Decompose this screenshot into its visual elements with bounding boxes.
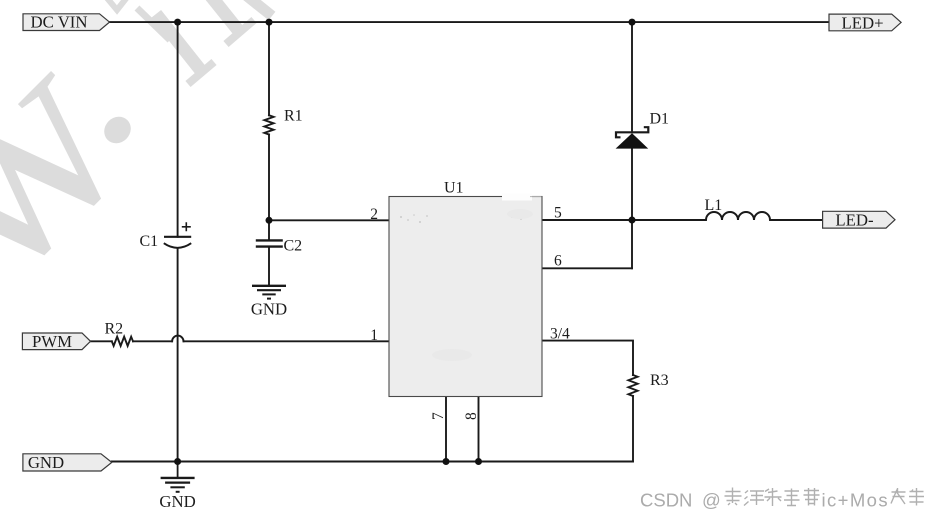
resistor R1 bbox=[264, 108, 302, 135]
wire D1 vertical lower bbox=[631, 149, 633, 269]
node R1-C2-pin2 bbox=[266, 217, 273, 224]
wire PWM to R2 bbox=[91, 340, 112, 342]
wire pin 5 to node bbox=[542, 219, 706, 221]
svg-text:LED-: LED- bbox=[835, 211, 873, 230]
ground symbol left bbox=[159, 462, 195, 512]
svg-text:DC VIN: DC VIN bbox=[30, 13, 87, 32]
svg-text:3/4: 3/4 bbox=[550, 326, 570, 343]
svg-text:D1: D1 bbox=[650, 111, 670, 128]
wire pin 8 bbox=[478, 397, 480, 462]
watermark bbox=[0, 0, 272, 335]
CSDN watermark text bbox=[640, 490, 889, 511]
svg-text:ic+Mos: ic+Mos bbox=[822, 490, 890, 511]
node GND-pin8 bbox=[475, 458, 482, 465]
wire pin 3/4 to R3 bbox=[542, 341, 633, 375]
wire pin 2 bbox=[269, 219, 389, 221]
svg-text:1: 1 bbox=[370, 327, 378, 344]
svg-text:R1: R1 bbox=[284, 108, 303, 125]
wire R2 to hop bbox=[133, 340, 172, 342]
resistor R2 bbox=[105, 321, 134, 346]
svg-text:GND: GND bbox=[251, 300, 287, 319]
svg-text:7: 7 bbox=[430, 412, 447, 420]
port GND bbox=[23, 453, 112, 472]
svg-text:LED+: LED+ bbox=[841, 13, 883, 32]
svg-text:GND: GND bbox=[159, 492, 195, 511]
svg-text:6: 6 bbox=[554, 253, 562, 270]
svg-text:8: 8 bbox=[463, 412, 480, 420]
wire D1 vertical upper bbox=[631, 22, 633, 132]
svg-text:R2: R2 bbox=[105, 321, 124, 338]
svg-text:U1: U1 bbox=[444, 180, 464, 197]
node GND-C1 bbox=[174, 458, 181, 465]
port LED- bbox=[823, 211, 895, 230]
node VIN-D1 bbox=[629, 19, 636, 26]
wire R1 to C2 node bbox=[268, 135, 270, 240]
IC U1 bbox=[389, 180, 542, 397]
svg-text:CSDN: CSDN bbox=[640, 490, 692, 511]
wire top rail VIN bbox=[110, 21, 830, 23]
svg-text:L1: L1 bbox=[705, 197, 723, 214]
svg-text:R3: R3 bbox=[650, 372, 669, 389]
wire hop to pin 1 bbox=[184, 340, 390, 342]
wire pin 6 bbox=[542, 267, 632, 269]
wire C1 vertical lower bbox=[177, 249, 179, 462]
resistor R3 bbox=[628, 372, 668, 396]
wire pin 7 bbox=[445, 397, 447, 462]
svg-text:5: 5 bbox=[554, 205, 562, 222]
node VIN-R1 bbox=[266, 19, 273, 26]
capacitor C2 bbox=[256, 238, 302, 255]
port DC VIN bbox=[23, 13, 110, 32]
wire R3 lower bbox=[632, 396, 634, 462]
wire C1 vertical upper bbox=[177, 22, 179, 237]
node SW pin5-D1-L1 bbox=[629, 217, 636, 224]
wire L1 to LED- bbox=[770, 219, 823, 221]
node VIN-C1 bbox=[174, 19, 181, 26]
wire C2 to ground bbox=[268, 248, 270, 286]
node GND-pin7 bbox=[443, 458, 450, 465]
svg-text:C2: C2 bbox=[284, 238, 303, 255]
port LED+ bbox=[829, 13, 901, 32]
wire bottom rail GND bbox=[112, 461, 633, 463]
svg-text:@: @ bbox=[702, 490, 721, 511]
svg-text:GND: GND bbox=[28, 453, 64, 472]
svg-text:2: 2 bbox=[370, 206, 378, 223]
inductor L1 bbox=[705, 197, 771, 220]
wire hop over C1 line bbox=[172, 336, 183, 342]
svg-text:C1: C1 bbox=[140, 233, 159, 250]
ground symbol C2 bbox=[251, 286, 287, 319]
svg-text:PWM: PWM bbox=[32, 332, 72, 351]
diode D1 bbox=[616, 111, 669, 149]
wire R1 branch upper bbox=[268, 22, 270, 115]
port PWM bbox=[22, 332, 90, 351]
capacitor C1 bbox=[140, 222, 192, 250]
